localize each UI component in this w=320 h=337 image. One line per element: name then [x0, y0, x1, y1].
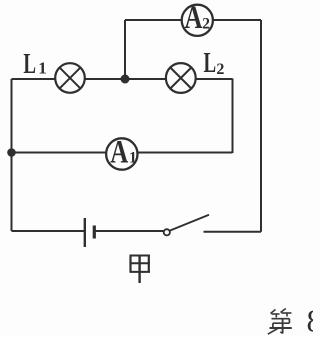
- svg-text:1: 1: [38, 59, 47, 78]
- lamp L1: [55, 63, 85, 93]
- label di (第) drawn as strokes: [268, 309, 292, 335]
- wire battery to switch: [95, 230, 164, 232]
- svg-text:2: 2: [216, 61, 224, 78]
- node junction dot top: [121, 75, 130, 84]
- ammeter A1: [106, 134, 137, 170]
- wire middle lamp row: [12, 78, 233, 80]
- node junction dot left: [7, 148, 16, 157]
- battery short plate: [93, 226, 96, 239]
- wire right vertical: [260, 20, 262, 232]
- svg-text:1: 1: [129, 150, 137, 167]
- wire left vertical: [11, 79, 13, 231]
- wire bottom left: [12, 230, 85, 232]
- svg-text:A: A: [185, 0, 203, 36]
- wire A1 row: [12, 152, 233, 154]
- svg-text:A: A: [110, 134, 128, 170]
- battery long plate: [84, 218, 86, 247]
- wire A2 branch vertical: [124, 20, 126, 79]
- wire top row: [125, 19, 261, 21]
- svg-text:8: 8: [307, 303, 314, 337]
- svg-text:2: 2: [202, 16, 210, 33]
- svg-text:L: L: [23, 48, 36, 80]
- ammeter A2: [182, 0, 213, 36]
- switch pivot: [164, 229, 170, 235]
- switch lever: [170, 215, 209, 231]
- lamp L2: [166, 63, 196, 93]
- svg-text:L: L: [204, 47, 217, 79]
- wire L2 down branch: [232, 79, 234, 154]
- wire switch to right corner: [204, 231, 262, 233]
- label jia (甲) drawn as strokes: [130, 255, 151, 284]
